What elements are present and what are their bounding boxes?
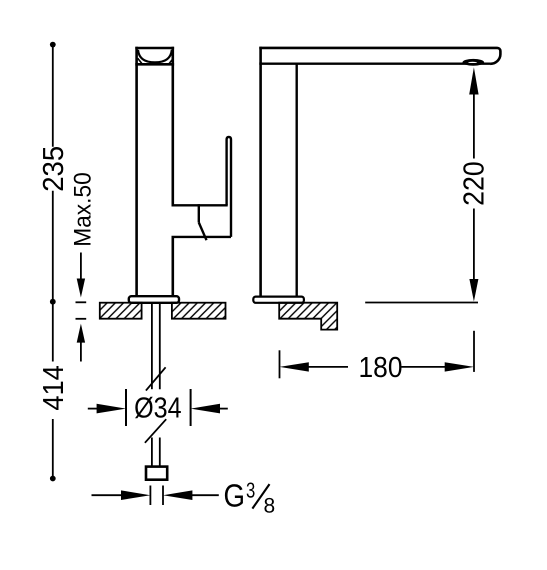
dimension G3/8: left tail — [92, 494, 124, 496]
dimension G3/8: left tick — [149, 486, 151, 506]
dimension 414: line lower — [52, 419, 54, 479]
side view: spout arm bottom line — [259, 63, 490, 65]
dimension 180: left tick — [279, 350, 281, 378]
dimension 235: line upper — [52, 45, 54, 147]
dimension G3/8: right tick — [162, 486, 164, 506]
svg-text:Ø34: Ø34 — [134, 393, 182, 425]
front view: mouth corner chamfer right — [169, 58, 173, 63]
front view: spout mouth arc — [138, 50, 172, 63]
dimension 414: bottom dot — [50, 476, 56, 482]
dimension Ø34: left arrowhead — [97, 404, 126, 414]
side view: outlet aerator — [463, 59, 485, 66]
dimension 220: line upper — [473, 93, 475, 159]
dimension Max.50: lower leader line — [80, 341, 82, 362]
dimension Max.50: upper leader line — [80, 253, 82, 282]
countertop left slab (right part) — [172, 303, 226, 319]
dimension 220: line lower — [473, 209, 475, 282]
svg-text:180: 180 — [359, 352, 403, 384]
dimension G3/8: right arrowhead — [163, 490, 192, 500]
svg-text:G: G — [224, 478, 246, 514]
dimension Max.50: down arrowhead — [77, 279, 85, 298]
dimension Ø34: right arrowhead — [191, 404, 220, 414]
dimension 180: right arrowhead — [445, 362, 474, 371]
svg-text:235: 235 — [38, 146, 70, 192]
dimension G3/8: right tail — [190, 494, 218, 496]
front view: base plate — [129, 296, 179, 303]
dimension Ø34: right tail — [218, 408, 228, 410]
dimension Ø34: left tail — [88, 408, 98, 410]
dimension Ø34: right tick — [190, 389, 192, 426]
svg-text:8: 8 — [263, 494, 275, 517]
svg-text:220: 220 — [459, 161, 491, 206]
countertop left slab (left part) — [100, 303, 142, 319]
dimension 235: line lower — [52, 191, 54, 302]
svg-text:Max.50: Max.50 — [70, 172, 97, 247]
dimension 180: left arrowhead — [280, 362, 309, 371]
dimension Max.50: up arrowhead — [77, 324, 85, 343]
shank break slash lower — [145, 419, 166, 443]
shank break slash upper — [146, 367, 166, 390]
dimension Max.50: bottom tick — [76, 318, 87, 320]
countertop right slab with edge step — [279, 303, 337, 330]
side view: column — [259, 47, 262, 297]
dimension 180: right tail — [402, 366, 447, 368]
front view: handle lever — [172, 137, 232, 240]
front view: faucet body column — [135, 47, 174, 297]
dimension 414: line upper — [52, 302, 54, 362]
svg-text:414: 414 — [38, 365, 70, 411]
front view: supply shank — [152, 303, 160, 467]
label fraction slash — [252, 484, 269, 509]
dimension G3/8: left arrowhead — [121, 490, 150, 500]
dimension Ø34: left tick — [125, 389, 127, 426]
side view: spout arm — [259, 48, 500, 64]
G3/8 fitting — [146, 467, 167, 480]
dimension 220: bottom arrowhead — [469, 279, 478, 302]
dimension 180: right tick — [473, 331, 475, 372]
countertop level extension line — [365, 302, 478, 304]
side view: base plate — [253, 297, 304, 303]
dimension 235: top dot — [50, 42, 56, 48]
svg-text:3: 3 — [246, 478, 255, 502]
dimension 180: left tail — [307, 366, 348, 368]
dimension 235/414: middle dot — [50, 299, 56, 305]
dimension 220: top arrowhead — [469, 67, 478, 94]
dimension Max.50: top tick — [76, 301, 87, 303]
front view: mouth corner chamfer left — [138, 58, 142, 63]
